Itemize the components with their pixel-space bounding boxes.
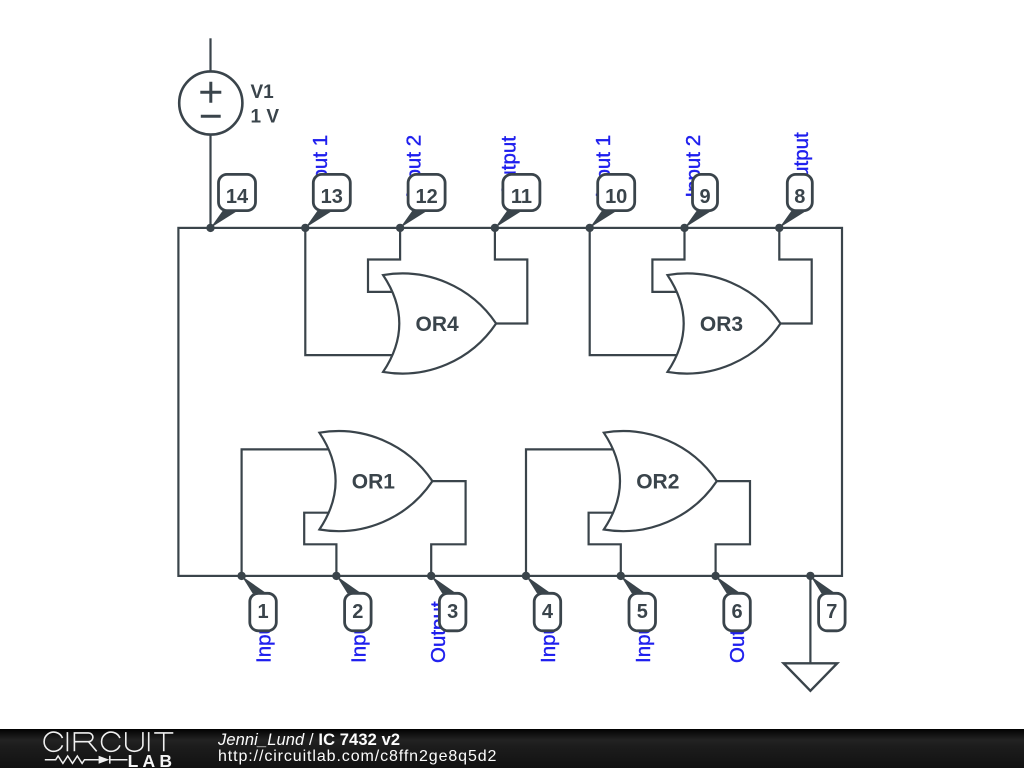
svg-text:LAB: LAB xyxy=(128,751,177,768)
